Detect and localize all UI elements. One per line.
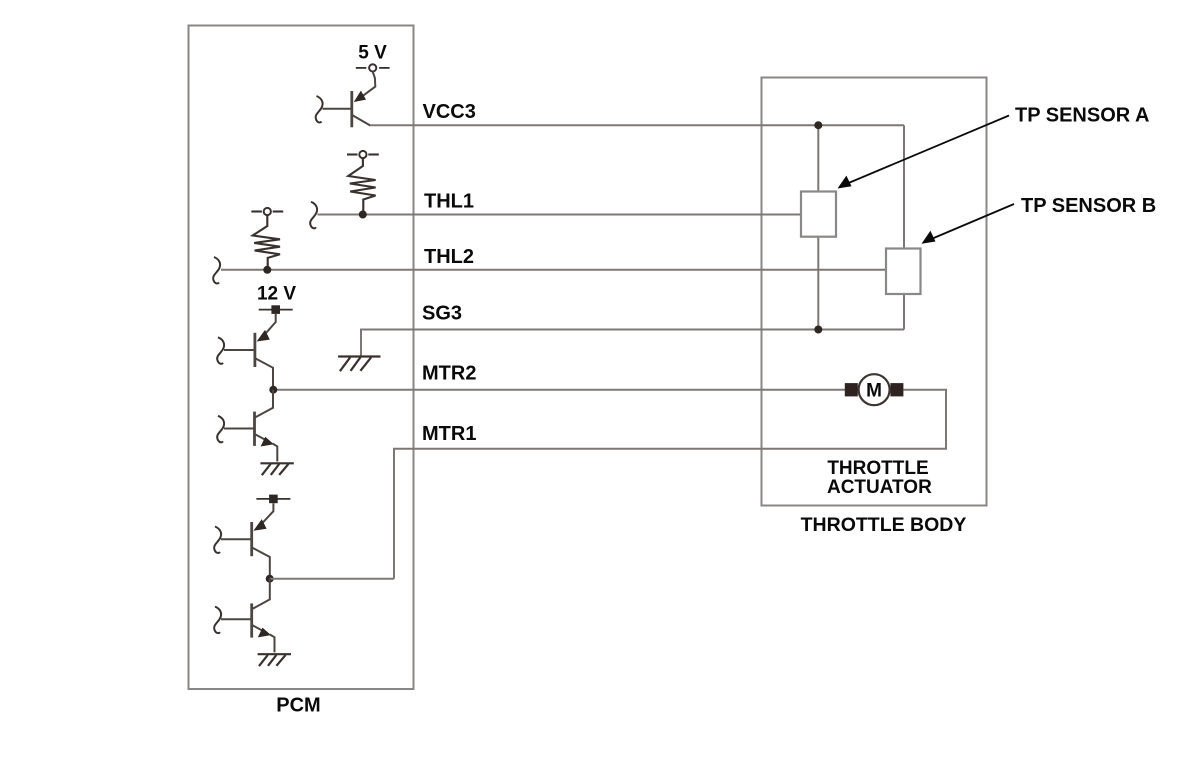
junction on SG3 at sensor A branch bbox=[814, 326, 822, 334]
12 V supply terminal (upper) bbox=[259, 305, 293, 314]
svg-text:12 V: 12 V bbox=[257, 284, 296, 305]
svg-text:SG3: SG3 bbox=[422, 303, 462, 325]
wire THL1 bbox=[318, 214, 802, 216]
junction on VCC3 at sensor A branch bbox=[814, 121, 822, 129]
wire-break squiggle at Q4 base bbox=[214, 527, 221, 554]
TP sensor B box bbox=[886, 249, 921, 295]
wire MTR2 bbox=[273, 389, 845, 391]
svg-text:VCC3: VCC3 bbox=[423, 101, 476, 123]
wire MTR1 node to right riser bbox=[270, 578, 394, 580]
transistor Q2 (PNP, MTR2 high side) bbox=[224, 314, 276, 390]
wire VCC3 bbox=[369, 124, 904, 126]
junction on THL1 at R1 bbox=[359, 211, 367, 219]
wire-break squiggle at Q2 base bbox=[217, 337, 224, 364]
svg-text:MTR1: MTR1 bbox=[422, 423, 476, 445]
motor M1 throttle actuator bbox=[845, 374, 904, 405]
resistor R2 (THL2 pull-up) bbox=[251, 208, 283, 270]
ground symbol at Q3 emitter bbox=[260, 463, 293, 475]
transistor Q5 (NPN, MTR1 low side) bbox=[221, 579, 275, 653]
svg-text:5 V: 5 V bbox=[358, 43, 387, 64]
ground symbol on SG3 bbox=[338, 357, 380, 372]
wire-break squiggle at THL1 bbox=[310, 202, 317, 229]
svg-text:TP SENSOR B: TP SENSOR B bbox=[1021, 195, 1156, 217]
svg-text:THL2: THL2 bbox=[424, 246, 474, 268]
svg-text:THL1: THL1 bbox=[424, 191, 474, 213]
wire-break squiggle at Q1 base bbox=[316, 96, 323, 123]
ground symbol at Q5 emitter bbox=[258, 654, 291, 666]
junction MTR2 node bbox=[269, 386, 277, 394]
transistor Q1 (PNP, VCC3 driver) bbox=[323, 72, 376, 128]
PCM box bbox=[189, 26, 414, 690]
wire THL2 bbox=[221, 269, 887, 271]
svg-text:TP SENSOR A: TP SENSOR A bbox=[1015, 105, 1149, 127]
12 V supply terminal (lower) bbox=[256, 495, 290, 504]
wire-break squiggle at THL2 bbox=[213, 257, 220, 284]
svg-text:THROTTLE BODY: THROTTLE BODY bbox=[801, 514, 967, 536]
TP SENSOR A callout leader arrow bbox=[838, 116, 1010, 189]
wire MTR1 bbox=[394, 390, 946, 579]
wire TP sensor A vertical branch bbox=[817, 125, 819, 191]
svg-text:THROTTLE: THROTTLE bbox=[827, 458, 928, 479]
transistor Q4 (PNP, MTR1 high side) bbox=[221, 503, 273, 579]
junction MTR1 node bbox=[266, 575, 274, 583]
svg-text:ACTUATOR: ACTUATOR bbox=[827, 477, 932, 498]
svg-text:PCM: PCM bbox=[276, 695, 320, 717]
throttle body box bbox=[762, 78, 987, 506]
wire TP sensor B vertical branch bbox=[903, 125, 905, 248]
svg-text:M: M bbox=[866, 381, 882, 402]
wire SG3 from ground stub to sensors bbox=[361, 330, 904, 357]
wire-break squiggle at Q3 base bbox=[217, 416, 224, 443]
TP sensor A box bbox=[801, 192, 836, 237]
junction on THL2 at R2 bbox=[263, 266, 271, 274]
svg-text:MTR2: MTR2 bbox=[422, 363, 476, 385]
5 V supply terminal bbox=[356, 64, 390, 71]
resistor R1 (THL1 pull-up) bbox=[347, 151, 379, 215]
TP SENSOR B callout leader arrow bbox=[922, 204, 1015, 244]
wire-break squiggle at Q5 base bbox=[214, 607, 221, 634]
transistor Q3 (NPN, MTR2 low side) bbox=[224, 390, 277, 462]
